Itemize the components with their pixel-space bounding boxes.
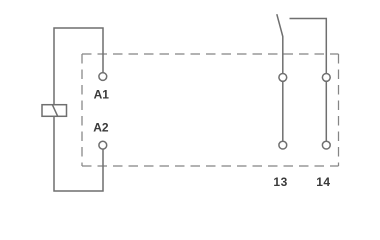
svg-text:A2: A2 <box>93 120 109 134</box>
svg-text:14: 14 <box>316 175 330 189</box>
svg-text:A1: A1 <box>94 88 110 102</box>
svg-text:13: 13 <box>273 175 287 189</box>
